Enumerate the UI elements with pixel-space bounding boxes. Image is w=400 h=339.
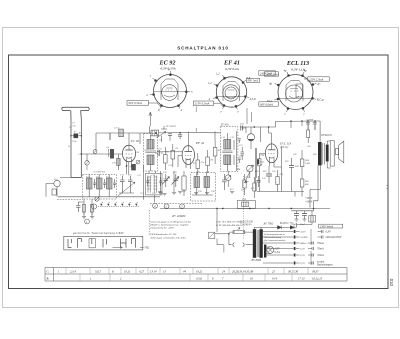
chassis ground symbols row [158,192,234,196]
svg-text:AF 7002: AF 7002 [263,223,274,226]
bus junction dots [254,120,316,128]
svg-text:19,21: 19,21 [196,269,203,273]
cathode resistor R21 [258,154,261,192]
svg-text:17 13: 17 13 [298,276,305,280]
svg-text:ECL 113: ECL 113 [286,60,309,67]
svg-text:130V 44mA: 130V 44mA [320,225,333,228]
wires FM section verticals [110,126,149,144]
schematic border frame [9,55,389,289]
ZF transformer I (dashed shield box) [144,134,158,172]
svg-text:2x5000: 2x5000 [306,119,314,122]
svg-text:SCHALTPLAN 010: SCHALTPLAN 010 [177,45,229,50]
svg-text:253V: 253V [300,231,306,234]
svg-text:0,3V: 0,3V [300,262,305,265]
svg-text:6,3V: 6,3V [300,248,305,251]
svg-text:L21: L21 [205,172,209,174]
svg-text:C21: C21 [140,193,144,195]
wire FM input top [96,132,221,150]
svg-text:DF940/32: DF940/32 [320,134,332,137]
component labels scatter [53,127,317,195]
tone potentiometer [225,171,231,187]
AM ground bus [58,196,160,198]
pot wiper arm [244,172,249,183]
switch wafer number (circled 3) [180,204,185,209]
svg-text:C11: C11 [159,149,162,151]
loudspeaker magnet [336,148,339,154]
pin numbers ECL113 [266,69,324,117]
switch wafer number (circled 2) [164,204,169,209]
table left divider [53,268,55,281]
wires to electrolytics [291,175,302,197]
svg-text:C:: C: [47,269,50,273]
chassis ground left pair [82,212,86,219]
resistor R5 [164,147,168,170]
svg-text:2,3,4: 2,3,4 [70,269,76,273]
AM bank coupling caps [93,177,162,188]
antenna [62,107,89,119]
svg-text:~70Ω: ~70Ω [143,247,149,250]
svg-text:70mA: 70mA [317,242,324,245]
label lamp 6,3V [275,248,280,254]
label selenium rectifier [263,222,294,226]
caps near EM [240,122,261,142]
svg-text:=260V: =260V [305,200,313,203]
table row R [46,276,323,280]
cap C14a on bus [178,132,182,139]
tube ECL113 pinout [274,72,316,112]
screen resistor R23 (1500) [300,150,310,176]
measurement arrow below EC92 [149,112,152,126]
svg-text:6,3V: 6,3V [300,254,305,257]
svg-text:C31: C31 [240,122,244,125]
table row C [47,269,320,273]
svg-text:010: 010 [389,279,394,287]
voltage label box (ECL113 triode, bottom left) [259,102,279,107]
tube EC92 pinout [150,71,190,109]
FM mixer cluster [147,126,172,145]
boxed label 130V [319,224,343,228]
IF coil bank (right dashed box) [192,173,213,196]
ZF-II side caps [237,131,241,171]
switch wafer number (circled 4) [153,203,158,208]
tap row 1 (6,3V) [263,231,294,233]
antenna input filter cap C7 [114,128,123,137]
parts index table frame [45,268,347,281]
rectifier diode 1 [278,226,282,230]
output transformer core [323,143,325,165]
loudspeaker frame [330,141,334,167]
coil L2 (FM, hatched) [106,146,115,159]
tap row 2 (anode) [263,236,294,238]
svg-text:5,6,7: 5,6,7 [95,269,101,273]
svg-text:16,12,15: 16,12,15 [312,276,323,280]
wire ECL113 anode riser [274,147,282,192]
svg-text:ZF: 460kHz: ZF: 460kHz [172,215,186,218]
tall resistor R6a [182,171,186,196]
svg-text:BV 6606: BV 6606 [252,259,262,262]
pin numbers EF41 [208,72,256,115]
voltage label box (EC92 cathode) [127,101,161,107]
svg-text:4,5,8: 4,5,8 [196,276,202,280]
cap to ground at pot [251,176,261,190]
AM section dashed shield box right [191,173,216,202]
rectifier diode 2 [290,226,294,230]
svg-text:1500: 1500 [305,162,311,165]
AM coil L11 + trimmer [97,175,103,197]
resistor R2 [82,205,85,213]
filament winding bar [264,245,266,258]
pot circle on bus [95,197,99,201]
AM IF coil unit box [144,165,163,203]
trimmer below (FM osc) [85,154,89,170]
tap chassis vertical [310,229,312,265]
cap C42 [289,158,300,175]
tube ECL113 (AF output) [259,144,278,167]
detector diode cap [222,174,227,190]
svg-text:R:: R: [46,276,50,280]
resistor R25 (40k) [300,176,309,192]
filter choke box [237,198,255,209]
small parts below ferrite antenna [57,197,99,224]
voltage label box (EF41 cathode, left) [193,101,223,107]
cap C10 below grid line [112,154,120,170]
antenna labels [72,123,77,143]
dashed link down to keys [148,210,150,236]
dashed link to UKW keys [150,203,202,205]
tap row 3 [263,242,294,244]
note Sicherung (3 lines) [264,233,286,242]
AF chassis bus [160,207,330,209]
tuning gang capacitor [118,182,135,196]
svg-text:0,3A: 0,3A [275,251,280,254]
svg-text:13 14: 13 14 [150,269,157,273]
dial lamp [266,247,273,254]
FM osc coil (right of tube) [131,151,140,171]
svg-text:6,3V: 6,3V [326,231,331,234]
output transformer primary winding [318,142,322,165]
push-button assembly box [64,236,143,250]
power transformer core [257,230,258,257]
svg-text:EC 92: EC 92 [159,60,176,67]
svg-text:HF-VERST.: HF-VERST. [165,126,177,128]
table column ticks [66,268,308,281]
svg-text:(für Austauschzwecke): (für Austauschzwecke) [264,239,286,242]
push-button arrow [113,247,123,249]
AM input coil L10 [87,175,93,197]
svg-text:47k: 47k [251,187,254,190]
svg-text:R11: R11 [255,171,259,173]
svg-text:EC 92: EC 92 [130,139,139,143]
svg-text:C7 2p: C7 2p [114,128,120,130]
B+ label [305,197,313,203]
svg-text:4,27: 4,27 [139,269,145,273]
resistor R22 [276,170,279,192]
mains on/off switch box [209,232,230,238]
mains connector pair [217,234,253,253]
volume potentiometer [247,165,254,178]
antenna feeder twin lead [71,120,81,178]
svg-text:4p: 4p [284,69,288,73]
stubs to pinout [247,108,252,124]
AM section dashed shield box left [83,175,117,200]
smoothing capacitors [291,208,313,225]
ZF transformer II (dashed shield box) [221,127,238,172]
mains dropper resistor [229,228,255,234]
secondary taps group [263,229,342,267]
svg-text:im UKW-Teil: im UKW-Teil [94,172,106,174]
svg-text:II. ZF 460 kHz 468 kHz: II. ZF 460 kHz 468 kHz [215,224,240,227]
svg-text:L11: L11 [85,177,89,179]
svg-text:EF 41: EF 41 [195,141,205,145]
mains switch coupling (dotted) [243,176,245,240]
tube EF41 (IF amp) [178,141,195,169]
AGC resistor chain [243,174,256,198]
resistor R6 [171,144,175,167]
svg-text:39,37: 39,37 [312,269,319,273]
coupling caps AM row [164,174,179,187]
label ECL113 [279,142,292,149]
wave switch arrows [158,171,179,195]
push-button contacts [68,239,136,248]
tube EC92 (FM osc/mixer) [122,133,135,175]
svg-text:C1: C1 [69,127,72,129]
ferrite rod antenna [46,180,60,197]
circled digit 1 [85,219,90,224]
tuning indicator EM (circle) [247,127,254,149]
svg-text:220/240 V~: 220/240 V~ [240,224,253,227]
svg-text:EM: EM [236,169,240,171]
svg-text:4p: 4p [269,82,273,86]
voltage label box (ECL113 screen, right) [304,77,329,82]
svg-text:245V 28mA: 245V 28mA [266,73,279,76]
resistor R3 [90,205,93,213]
tap row 6 (dial lamps) [263,262,294,264]
table mid line [45,273,347,275]
capacitor C8 [76,202,84,212]
svg-text:L1: L1 [67,146,70,148]
grid cap C40 [266,166,272,183]
svg-text:26,28,33,34,35,38: 26,28,33,34,35,38 [232,269,254,273]
cap C32 [241,147,245,160]
trimmer capacitor (FM grid) [93,150,97,154]
svg-text:72mA: 72mA [317,254,324,257]
AM padder capacitors [120,176,133,188]
svg-text:Änderungen vorbehalten 150–350: Änderungen vorbehalten 150–350m [149,236,186,239]
svg-text:9 14: 9 14 [272,276,278,280]
tube EF41 pinout [213,75,249,110]
svg-text:70mA: 70mA [317,248,324,251]
power transformer secondary winding [259,229,262,258]
grid wire to EF41 [158,151,183,153]
voltage label box (EF41 screen) [247,78,260,82]
bus risers [246,121,320,144]
coupling cap C12 [155,150,163,156]
tap row 4 [266,248,293,250]
wire feeder to grid line [60,133,123,178]
measurement stub x196 [195,107,197,132]
svg-text:gestrichelt: Tastenschaltung U: gestrichelt: Tastenschaltung UKW [73,231,124,235]
svg-text:entsprechend bis ±20%!: entsprechend bis ±20%! [150,227,174,230]
top HT bus [240,121,320,127]
tone correction caps [306,119,317,144]
svg-text:220V 2,5mA: 220V 2,5mA [309,77,323,81]
capacitor C2 (antenna, dark) [70,134,82,139]
svg-text:C1: C1 [72,123,75,125]
detector electrolytic [257,159,265,166]
svg-text:EF 41: EF 41 [223,60,240,67]
power transformer primary winding [253,229,256,258]
junction dots on bus [216,208,314,210]
HT wire with rectifier [255,227,297,229]
tap row 5 [266,254,293,256]
screen resistor cluster under EF41 [196,141,217,175]
tube name labels [159,60,310,73]
svg-text:36 27,30: 36 27,30 [288,269,299,273]
svg-text:Skalenlampen: Skalenlampen [317,264,333,267]
voltage label box (EF41 anode) [259,71,276,76]
svg-text:10,11: 10,11 [124,269,131,273]
svg-text:C41: C41 [293,153,297,156]
pin numbers EC92 [147,68,194,113]
voltage label box (ECL113 anode, left top) [265,72,279,77]
svg-text:200/220/250V: 200/220/250V [326,236,342,239]
wires output transformer [327,141,331,168]
switch wafer number (circled 1) [91,204,96,209]
svg-text:440mA: 440mA [300,242,308,245]
HT fuse [297,211,316,228]
loudspeaker cone [339,141,344,163]
detector twin vertical wires [255,148,256,192]
svg-text:90V 1mA: 90V 1mA [248,80,259,83]
output transformer secondary winding [326,145,329,162]
wave switch contacts row [98,202,140,207]
svg-text:2x300V: 2x300V [300,236,308,239]
svg-text:60V 0,6mA: 60V 0,6mA [260,102,273,106]
volume pot wire down [216,208,218,232]
svg-text:ZF-Filt.: ZF-Filt. [221,124,230,127]
AM coil L12 [107,175,113,197]
dashed shield bottom extension [57,199,83,201]
label mains voltage [240,221,254,227]
audio ground bus [257,191,304,193]
feedback wire from speaker [310,166,321,208]
frame registration ticks [386,186,388,189]
